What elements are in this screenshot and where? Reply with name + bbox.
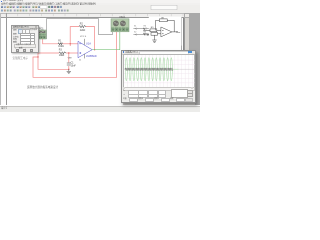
wire XFG1 pin1 to R3 bbox=[38, 39, 59, 53]
svg-text:11: 11 bbox=[79, 59, 82, 61]
title bar bbox=[0, 0, 200, 3]
svg-text:10kΩ: 10kΩ bbox=[59, 55, 65, 57]
figure op-amp bbox=[161, 27, 172, 37]
toolbar row 2 bbox=[0, 9, 200, 14]
wire C1 upper lead bbox=[68, 53, 70, 63]
indicator branch X2 with resistor R6 bbox=[133, 34, 150, 36]
node inverting input junction bbox=[70, 43, 71, 44]
svg-text:运算放大器的振荡电路设计: 运算放大器的振荡电路设计 bbox=[27, 85, 59, 89]
wire gray net XFG1 common to XSC1 pin 1 bbox=[47, 19, 113, 39]
wire R1 to op-amp inverting input bbox=[63, 43, 79, 45]
wire C1 lower lead bbox=[68, 66, 70, 69]
textbook figure box bbox=[143, 17, 181, 46]
menu bar bbox=[0, 3, 200, 6]
svg-text:R1: R1 bbox=[58, 41, 62, 43]
svg-text:R3: R3 bbox=[59, 50, 63, 52]
status bar bbox=[0, 106, 200, 114]
node C1 ground junction bbox=[68, 69, 69, 70]
bottom row of group fields bbox=[123, 98, 127, 100]
wire R3 to op-amp non-inverting input bbox=[66, 52, 78, 54]
canvas white bbox=[0, 13, 200, 107]
right gray gutter bbox=[188, 13, 200, 105]
ruler corner box bbox=[0, 13, 8, 18]
svg-text:VCC 4: VCC 4 bbox=[80, 36, 87, 38]
scrollbar arrows bbox=[184, 13, 189, 18]
wire green op-amp output to XSC1 channel A bbox=[92, 32, 120, 50]
figure resistor R1 input bbox=[144, 29, 161, 35]
wire bottom common loop to XSC1 pin 2 bbox=[33, 32, 117, 78]
figure noninv to ground via R2 bbox=[151, 32, 161, 35]
toolbar1 icons bbox=[1, 5, 177, 11]
left page margin bbox=[5, 13, 8, 105]
svg-text:安徽理工电子: 安徽理工电子 bbox=[13, 56, 29, 60]
title bar bbox=[122, 51, 195, 55]
ground bbox=[67, 69, 71, 73]
svg-text:X2: X2 bbox=[134, 32, 136, 34]
bottom terminals bbox=[15, 47, 26, 49]
svg-text:R2: R2 bbox=[80, 24, 84, 26]
rise/fall button bbox=[14, 44, 36, 48]
svg-text:10nF: 10nF bbox=[71, 65, 77, 67]
top ruler strip bbox=[0, 13, 184, 18]
indicator branch X1 with resistor R5 bbox=[133, 28, 150, 30]
waveform buttons bbox=[13, 29, 17, 31]
wire inner branch to ground bbox=[38, 57, 69, 69]
node output junction bbox=[94, 49, 95, 50]
screen bbox=[123, 54, 196, 88]
svg-text:VEE: VEE bbox=[68, 57, 73, 59]
wire feedback right segment R2 to output node bbox=[86, 27, 95, 50]
toolbar icons drawn in svg below bbox=[0, 0, 200, 112]
wire XFG1 pin2 to R1 bbox=[43, 39, 58, 44]
input rows bbox=[13, 33, 17, 35]
node non-inverting input junction bbox=[68, 52, 69, 53]
figure ground bbox=[152, 35, 156, 42]
resistor R1 bbox=[58, 43, 63, 45]
svg-text:22kΩ: 22kΩ bbox=[80, 30, 86, 32]
svg-text:LM358AD: LM358AD bbox=[86, 55, 97, 58]
oscilloscope XSC1 bbox=[111, 19, 129, 32]
svg-text:10kΩ: 10kΩ bbox=[58, 46, 64, 48]
op-amp U1A bbox=[78, 41, 92, 57]
op-amp power pins bbox=[84, 39, 86, 45]
oscilloscope window shadow bbox=[123, 102, 196, 106]
resistor R2 (feedback) bbox=[79, 26, 86, 28]
readout table rows bbox=[123, 90, 125, 92]
right scrollbar bbox=[184, 13, 189, 105]
svg-text:U1A: U1A bbox=[86, 42, 91, 46]
capacitor C1 bbox=[67, 63, 71, 65]
figure resistor Rf bbox=[156, 19, 175, 32]
resistor R3 bbox=[59, 52, 66, 54]
function generator XFG1 bbox=[37, 30, 46, 39]
figure output bbox=[172, 31, 178, 32]
ruler ticks top bbox=[6, 13, 183, 16]
wire feedback left segment to R2 bbox=[70, 27, 79, 46]
toolbar row 1 bbox=[0, 5, 200, 10]
svg-text:C1: C1 bbox=[71, 62, 75, 64]
svg-text:X1: X1 bbox=[134, 26, 136, 28]
right white box + buttons bbox=[171, 89, 188, 97]
node common rail junction bbox=[37, 56, 38, 57]
scrollbar strip bbox=[123, 87, 196, 91]
canvas right border bbox=[182, 13, 185, 105]
svg-text:XSC1: XSC1 bbox=[119, 16, 126, 19]
